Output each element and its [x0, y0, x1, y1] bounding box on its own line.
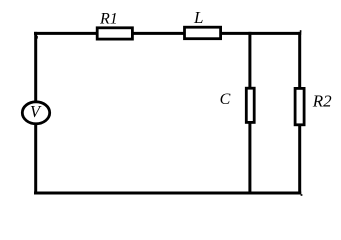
svg-text:R2: R2 — [312, 92, 332, 111]
svg-text:R1: R1 — [99, 11, 118, 28]
svg-text:C: C — [220, 91, 231, 108]
svg-text:L: L — [193, 8, 203, 27]
